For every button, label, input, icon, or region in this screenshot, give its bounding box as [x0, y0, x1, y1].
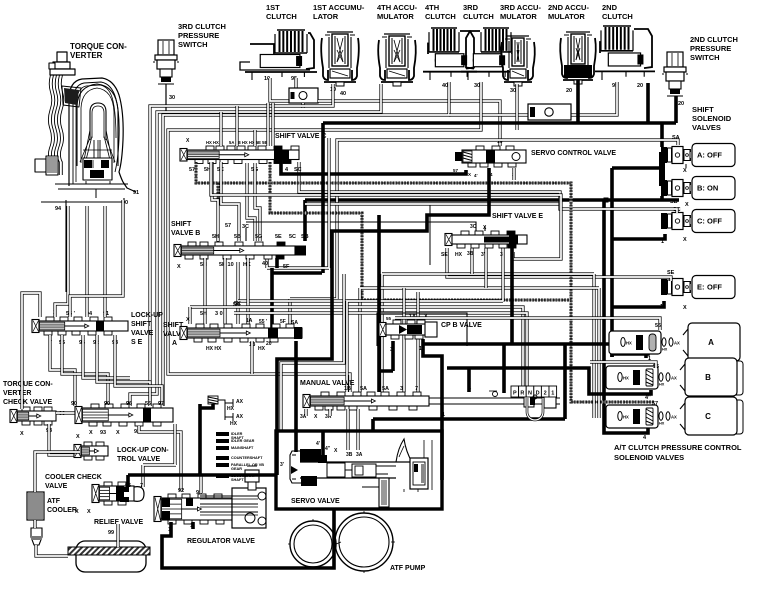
svg-text:4TH ACCU-: 4TH ACCU-	[377, 3, 418, 12]
AX HX lube cluster	[208, 396, 218, 404]
svg-text:5A: 5A	[382, 386, 389, 392]
wire lock-up shift to control valve	[50, 335, 75, 406]
lock-up shift valve	[46, 317, 54, 321]
svg-text:GEAR: GEAR	[231, 467, 242, 471]
svg-text:ATF: ATF	[47, 498, 61, 505]
svg-text:X: X	[76, 434, 80, 440]
1st clutch	[279, 31, 281, 52]
svg-text:HX: HX	[455, 252, 463, 258]
svg-text:5C: 5C	[289, 234, 296, 240]
wire valve E 3 to manual	[347, 248, 503, 392]
svg-text:CLUTCH: CLUTCH	[463, 12, 494, 21]
svg-text:3: 3	[500, 252, 503, 258]
wire valve C to valve B crossings	[212, 162, 218, 241]
svg-text:3RD CLUTCH: 3RD CLUTCH	[178, 22, 226, 31]
svg-text:1: 1	[442, 412, 445, 418]
svg-text:7: 7	[415, 386, 418, 392]
shift valve E region frame	[429, 205, 431, 265]
svg-text:4'': 4''	[645, 395, 651, 401]
svg-text:OFF: OFF	[707, 151, 722, 160]
check valve top	[289, 88, 318, 103]
svg-text:SWITCH: SWITCH	[178, 40, 208, 49]
wire feed shift solenoids	[660, 123, 664, 147]
svg-text:SC: SC	[294, 167, 302, 173]
svg-text:SERVO VALVE: SERVO VALVE	[291, 498, 340, 505]
wire suction line	[162, 509, 334, 568]
svg-text:1ST ACCUMU-: 1ST ACCUMU-	[313, 3, 365, 12]
oil pan	[76, 541, 146, 572]
wire valve B 5F trunk	[272, 258, 322, 329]
svg-text:COOLER CHECK: COOLER CHECK	[45, 474, 102, 481]
svg-text:TROL VALVE: TROL VALVE	[117, 456, 161, 463]
wire hollow corner near lube trunk	[281, 274, 344, 430]
svg-text:AX: AX	[671, 376, 677, 381]
wire solenoid E port 1	[612, 301, 664, 307]
svg-text:C: C	[705, 412, 711, 421]
3rd accumulator	[507, 35, 529, 37]
wire cooler top	[35, 452, 80, 492]
svg-text:5G: 5G	[255, 234, 262, 240]
svg-text:X: X	[20, 431, 24, 437]
svg-text:3': 3'	[280, 462, 284, 468]
svg-text:CLUTCH: CLUTCH	[266, 12, 297, 21]
wire 2nd clutch 20	[646, 83, 650, 123]
svg-text:MULATOR: MULATOR	[377, 12, 414, 21]
wire hollow 195 bus	[211, 162, 561, 259]
svg-text:X: X	[87, 509, 91, 515]
svg-text:PRESSURE: PRESSURE	[178, 31, 219, 40]
shift valve E	[461, 231, 469, 235]
svg-text:3C: 3C	[470, 224, 477, 230]
svg-text:5H: 5H	[200, 311, 207, 317]
svg-text:5A 5B HX HX 5E 5E: 5A 5B HX HX 5E 5E	[229, 140, 267, 145]
svg-text:VERTER: VERTER	[70, 51, 103, 60]
shift valve A	[196, 324, 204, 328]
CPB valve	[393, 320, 401, 324]
svg-text:IDLER GEAR: IDLER GEAR	[231, 439, 255, 443]
wire tc check to lock-up control	[56, 411, 81, 414]
svg-text:1ST: 1ST	[266, 3, 280, 12]
wire solenoid C port 1	[612, 234, 665, 239]
svg-text:S E: S E	[131, 339, 143, 346]
svg-text:HX: HX	[623, 376, 629, 381]
svg-text:P: P	[513, 391, 517, 397]
svg-text:2: 2	[544, 391, 547, 397]
svg-text:92: 92	[178, 488, 184, 494]
wire hollow y204	[305, 202, 561, 205]
svg-text:MULATOR: MULATOR	[548, 12, 585, 21]
wire hatched 57 bus	[196, 162, 654, 402]
svg-text:HX: HX	[623, 415, 629, 420]
svg-text:SHIFT: SHIFT	[692, 105, 714, 114]
svg-text:5F: 5F	[280, 319, 286, 325]
wire tc check 93 down	[49, 424, 80, 455]
wire manual to servo 3B 3A	[346, 409, 349, 450]
wire 3rd clutch 30 bus	[168, 82, 481, 392]
svg-text:SWITCH: SWITCH	[690, 53, 720, 62]
wire bus y313	[234, 313, 527, 392]
wire 40 hollow 329	[267, 138, 329, 268]
svg-text:30: 30	[474, 83, 480, 89]
wire lock-up control 92 to regulator	[139, 426, 181, 491]
svg-text:3: 3	[400, 386, 403, 392]
svg-text:SERVO CONTROL VALVE: SERVO CONTROL VALVE	[531, 150, 616, 157]
svg-text:X: X	[177, 264, 181, 270]
wire bus y274	[382, 274, 594, 418]
svg-text:HX HX: HX HX	[206, 140, 219, 145]
svg-text:X: X	[116, 430, 120, 436]
svg-text:SOLENOID: SOLENOID	[692, 114, 732, 123]
svg-text:HX: HX	[626, 341, 632, 346]
svg-text:3B: 3B	[467, 251, 474, 257]
svg-text:B: B	[705, 373, 711, 382]
svg-text:55 ': 55 '	[259, 319, 267, 325]
svg-text:4': 4'	[474, 173, 478, 178]
svg-text:AX: AX	[236, 399, 244, 405]
wire SB to shift valve B	[303, 200, 307, 241]
torque converter check valve	[22, 407, 30, 411]
wire main line vertical 322	[321, 123, 325, 273]
svg-text:40: 40	[262, 261, 268, 267]
svg-text:A: A	[708, 338, 714, 347]
shift solenoid E	[661, 279, 667, 295]
svg-text:SA: SA	[291, 320, 298, 326]
wire servo control 4 branch CPB	[377, 215, 381, 392]
svg-text:A:: A:	[697, 151, 705, 160]
svg-text:4'': 4''	[325, 446, 330, 452]
svg-text:X: X	[89, 430, 93, 436]
svg-text:OFF: OFF	[707, 217, 722, 226]
svg-text:X: X	[186, 317, 190, 323]
svg-text:SOLENOID VALVES: SOLENOID VALVES	[614, 453, 684, 462]
svg-text:X: X	[683, 168, 687, 174]
svg-text:5K: 5K	[233, 302, 240, 308]
svg-text:AX: AX	[674, 341, 680, 346]
svg-text:COOLER: COOLER	[47, 507, 77, 514]
svg-text:VALVE B: VALVE B	[171, 230, 200, 237]
svg-text:VALVE: VALVE	[131, 330, 154, 337]
wire valve A small stubs	[250, 341, 253, 374]
ATF pump	[290, 521, 336, 567]
wire servo control 4 net	[277, 168, 489, 475]
svg-text:OFF: OFF	[707, 283, 722, 292]
wire lube feed thick	[128, 404, 277, 487]
svg-text:5E: 5E	[275, 234, 282, 240]
svg-text:20: 20	[566, 88, 572, 94]
manual valve position indicator	[511, 386, 519, 397]
svg-text:20: 20	[266, 341, 272, 347]
wire 2nd accumulator 20	[576, 80, 580, 123]
svg-text:B:: B:	[697, 184, 705, 193]
pressure control solenoid A	[609, 331, 661, 354]
wire servo 4-prime branch	[321, 431, 325, 459]
svg-text:5A: 5A	[360, 386, 367, 392]
svg-text:CLUTCH: CLUTCH	[425, 12, 456, 21]
ATF strainer	[31, 528, 42, 545]
solenoid A-B feed bar	[659, 152, 665, 186]
3rd clutch	[485, 29, 487, 51]
svg-text:C:: C:	[697, 217, 705, 226]
svg-text:X: X	[468, 172, 471, 177]
shift valve C	[206, 146, 214, 150]
wire valve E 3B line	[470, 248, 473, 274]
2nd accumulator	[566, 31, 590, 33]
shift valve B	[188, 242, 196, 246]
svg-text:57: 57	[652, 401, 658, 407]
svg-text:HX: HX	[659, 422, 665, 426]
pressure control solenoid B	[606, 366, 658, 389]
svg-text:93: 93	[100, 430, 106, 436]
wire CPB 55 long	[395, 318, 660, 330]
relief valve	[104, 482, 112, 486]
shift solenoid C	[661, 213, 667, 229]
svg-text:90: 90	[71, 401, 77, 407]
wire manual valve to solenoid B 4''	[447, 368, 651, 394]
wire valve C 4 to servo control valve	[281, 153, 466, 174]
svg-text:SE: SE	[441, 252, 448, 258]
svg-text:3C: 3C	[242, 224, 249, 230]
wire 1st clutch 95	[294, 78, 297, 89]
svg-text:X: X	[683, 305, 687, 311]
servo valve	[290, 451, 301, 483]
svg-text:HX: HX	[662, 348, 668, 352]
svg-text:57: 57	[225, 223, 231, 229]
wire strainer to pan	[36, 545, 68, 556]
svg-text:40: 40	[340, 91, 346, 97]
wire 3rd pressure switch port 30	[165, 84, 167, 115]
regulator valve	[168, 494, 176, 498]
svg-text:94: 94	[55, 206, 62, 212]
svg-text:SE: SE	[667, 270, 675, 276]
4th accumulator	[384, 33, 410, 35]
pressure control solenoid C	[606, 405, 658, 428]
svg-text:HX: HX	[227, 406, 235, 412]
svg-text:SHIFT: SHIFT	[171, 221, 192, 228]
4th clutch	[433, 29, 435, 51]
wire bus y288	[360, 288, 599, 418]
svg-text:A/T CLUTCH PRESSURE CONTROL: A/T CLUTCH PRESSURE CONTROL	[614, 443, 742, 452]
wire solenoid AB to bus	[612, 166, 660, 170]
svg-text:4': 4'	[316, 441, 320, 447]
svg-text:AX: AX	[671, 415, 677, 420]
svg-text:SHIFT VALVE E: SHIFT VALVE E	[492, 213, 543, 220]
wire CPB 1 trunk	[423, 339, 442, 480]
wire 4th accumulator 40 bus	[130, 84, 381, 406]
wire 4th clutch 40 / 2nd clutch 95 bus	[163, 82, 449, 406]
2nd clutch	[605, 27, 607, 50]
shaft feed lines	[216, 432, 229, 436]
wire valve C feeds top	[219, 112, 222, 146]
svg-text:LATOR: LATOR	[313, 12, 339, 21]
wire solenoid bus vertical 604	[604, 200, 648, 433]
wire hatched 57 to valve B	[217, 183, 220, 242]
svg-text:CHECK VALVE: CHECK VALVE	[3, 399, 52, 406]
svg-text:5F: 5F	[283, 264, 290, 270]
svg-text:30: 30	[169, 95, 175, 101]
svg-text:4TH: 4TH	[425, 3, 439, 12]
wire valve E 3' to manual 7	[416, 292, 419, 392]
svg-text:X: X	[683, 237, 687, 243]
svg-text:VALVE: VALVE	[45, 483, 68, 490]
svg-text:HX: HX	[659, 383, 665, 387]
wire hatched 5G branch	[270, 162, 571, 300]
svg-text:COUNTERSHAFT: COUNTERSHAFT	[231, 456, 263, 460]
ATF cooler	[27, 492, 44, 520]
svg-text:HX: HX	[230, 421, 238, 427]
svg-text:LOCK-UP: LOCK-UP	[131, 312, 163, 319]
svg-text:3 0: 3 0	[215, 311, 223, 317]
svg-text:1: 1	[551, 391, 554, 397]
wire SB trunk	[305, 196, 679, 200]
1st accumulator	[327, 31, 353, 33]
wire manual valve 4 up	[502, 344, 506, 393]
svg-text:57: 57	[453, 168, 459, 173]
manual valve detent hook	[527, 398, 543, 420]
svg-text:2ND ACCU-: 2ND ACCU-	[548, 3, 589, 12]
wire valve A 20 to servo	[294, 341, 298, 452]
wire cooler to strainer	[33, 520, 36, 528]
wire bus y307	[190, 307, 523, 392]
wire tc check valve left	[22, 293, 40, 409]
svg-text:MAINSHAFT: MAINSHAFT	[231, 446, 254, 450]
svg-text:SB: SB	[301, 234, 309, 240]
wire check valve drop	[301, 103, 304, 108]
wire servo control 3 stub	[512, 168, 515, 180]
svg-text:3A: 3A	[356, 452, 363, 458]
wire valve E 3-prime line	[484, 248, 487, 288]
wire CPB 3	[379, 341, 393, 371]
svg-text:20: 20	[678, 101, 684, 107]
svg-text:SHIFT VALVE C: SHIFT VALVE C	[275, 133, 326, 140]
svg-text:R: R	[520, 391, 524, 397]
svg-text:MULATOR: MULATOR	[500, 12, 537, 21]
wire check valve to servo control valve 10	[318, 101, 500, 146]
wire pan 99	[116, 524, 119, 547]
svg-text:ATF PUMP: ATF PUMP	[390, 565, 426, 572]
svg-text:PRESSURE: PRESSURE	[690, 44, 731, 53]
svg-text:VERTER: VERTER	[3, 390, 31, 397]
wire CPB X loop	[377, 313, 467, 346]
wire torque converter to lock-up shift valve	[55, 206, 68, 317]
wire 56 hollow	[590, 362, 656, 368]
svg-text:REGULATOR VALVE: REGULATOR VALVE	[187, 538, 255, 545]
servo valve enclosure	[276, 431, 442, 509]
2nd clutch pressure switch	[667, 52, 683, 67]
svg-text:SHAFT: SHAFT	[231, 478, 244, 482]
svg-text:5B: 5B	[234, 234, 241, 240]
svg-text:40: 40	[442, 83, 448, 89]
wire regulator 95 riser	[199, 476, 202, 493]
svg-text:3RD: 3RD	[463, 3, 479, 12]
svg-text:55: 55	[386, 316, 392, 321]
wire 1st accumulator 10 bus	[150, 84, 333, 406]
wire valve E 4 trunk	[373, 247, 612, 431]
svg-text:1B: 1B	[344, 386, 351, 392]
svg-text:X: X	[685, 202, 689, 208]
svg-text:CLUTCH: CLUTCH	[602, 12, 633, 21]
svg-text:97: 97	[158, 401, 164, 407]
svg-text:99: 99	[108, 530, 114, 536]
svg-text:LOCK-UP CON-: LOCK-UP CON-	[117, 447, 169, 454]
shift solenoid A	[661, 147, 667, 163]
wire main line bus	[323, 121, 676, 125]
wire SA hollow	[290, 140, 678, 325]
svg-text:20: 20	[637, 83, 643, 89]
wire pc solenoid A 1	[644, 354, 648, 358]
lock-up control valve	[91, 404, 99, 408]
svg-text:N: N	[528, 391, 532, 397]
svg-text:5H: 5H	[212, 234, 219, 240]
shift solenoid B	[661, 180, 667, 196]
wire valve B to valve A verticals	[203, 258, 206, 324]
check valve main line	[528, 104, 571, 120]
svg-text:55: 55	[145, 401, 151, 407]
svg-text:2ND: 2ND	[602, 3, 618, 12]
svg-text:TORQUE CON-: TORQUE CON-	[70, 42, 127, 51]
svg-text:A: A	[172, 340, 177, 347]
wire solenoid bus vertical 612	[610, 168, 614, 357]
3rd clutch pressure switch	[158, 40, 174, 55]
svg-text:91: 91	[133, 190, 139, 196]
svg-text:AX: AX	[236, 414, 244, 420]
svg-text:3RD ACCU-: 3RD ACCU-	[500, 3, 541, 12]
svg-text:3': 3'	[481, 252, 485, 258]
svg-text:30: 30	[510, 88, 516, 94]
svg-text:90: 90	[104, 401, 110, 407]
wire 3C line	[246, 222, 485, 241]
svg-text:57: 57	[189, 167, 195, 173]
svg-text:VALVES: VALVES	[692, 123, 721, 132]
manual valve	[321, 392, 329, 396]
wire SC hollow	[299, 162, 677, 213]
wire 2nd switch 20	[674, 96, 678, 123]
servo control valve	[476, 146, 484, 150]
wire SE hollow	[447, 248, 671, 281]
svg-text:HX HX: HX HX	[206, 346, 222, 352]
torque converter sump box	[41, 201, 125, 203]
wire manual valve bottom stubs	[306, 409, 330, 416]
svg-text:96: 96	[126, 401, 132, 407]
svg-text:HX: HX	[258, 346, 266, 352]
svg-text:1A: 1A	[246, 318, 253, 324]
torque converter	[35, 52, 136, 198]
svg-text:3B: 3B	[346, 452, 353, 458]
svg-text:TORQUE CON-: TORQUE CON-	[3, 381, 53, 388]
svg-text:ON: ON	[707, 184, 718, 193]
svg-text:E:: E:	[697, 283, 705, 292]
svg-text:SHIFT: SHIFT	[131, 321, 152, 328]
cooler check valve	[84, 442, 92, 446]
svg-text:55: 55	[655, 323, 661, 329]
wire manual valve 4 to solenoid A 1	[612, 344, 648, 357]
wire 1st clutch 10 to check valve	[270, 78, 290, 101]
svg-text:CP B VALVE: CP B VALVE	[441, 322, 482, 329]
svg-text:2ND CLUTCH: 2ND CLUTCH	[690, 35, 738, 44]
wire 3rd accumulator 30	[515, 84, 518, 130]
wire lock-up control 7 to relief	[143, 424, 176, 487]
